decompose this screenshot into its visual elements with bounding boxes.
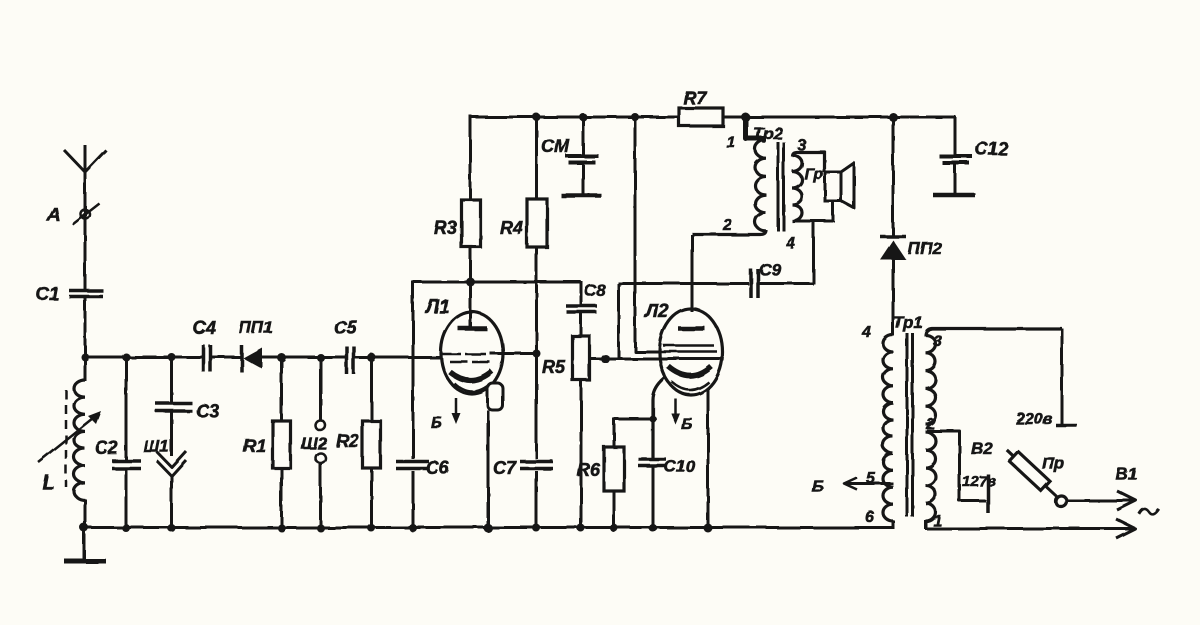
capacitor C12 [940, 155, 973, 159]
node R1 top dot [277, 353, 286, 362]
wire L2 right lead [707, 389, 710, 529]
resistor R1 [273, 421, 291, 468]
node PP2 top dot [889, 113, 898, 122]
wire C4 to diode [211, 356, 242, 359]
wire Sh1 branch upper [170, 357, 173, 404]
tube L2 screen line [661, 350, 717, 353]
svg-text:R2: R2 [336, 431, 359, 451]
node L2 right lead dot [704, 524, 713, 533]
wire L1 cathode to bus [487, 410, 490, 529]
resistor R1 branch [280, 358, 283, 422]
wire C10 to bus [652, 466, 655, 529]
wire Tr1 pin3 [926, 329, 1063, 337]
wire top supply bus right [722, 116, 956, 119]
svg-text:В2: В2 [971, 439, 993, 458]
wire L2 anode vertical [691, 235, 694, 313]
node L1 cathode bottom dot [484, 524, 493, 533]
capacitor C11 branch [582, 117, 585, 154]
tube L1 cathode tab [488, 383, 503, 410]
wire C8 stem upper [580, 281, 583, 305]
svg-text:Б: Б [681, 416, 692, 433]
node Sh1 top dot [168, 353, 176, 361]
speaker Gr [825, 172, 841, 201]
wire top supply bus left [470, 116, 679, 119]
switch contact 127V [986, 474, 990, 513]
wire C3 to jack [170, 411, 173, 456]
wire main bus row [85, 356, 204, 359]
svg-text:В1: В1 [1116, 465, 1138, 484]
tube L2 envelope [660, 309, 723, 395]
antenna A symbol [64, 150, 106, 172]
svg-text:R3: R3 [434, 218, 457, 238]
node R6 tap dot [650, 416, 657, 423]
svg-text:СМ: СМ [541, 136, 570, 156]
svg-text:С8: С8 [584, 281, 606, 300]
node Sh1 bottom dot [168, 524, 176, 532]
node C6 bottom dot [409, 524, 417, 532]
jack Sh1 symbol [157, 451, 186, 467]
wire bottom bus right [925, 527, 1132, 530]
svg-text:R1: R1 [243, 436, 266, 456]
wire Tr2 pin4 [792, 220, 833, 223]
wire C1 to bus [84, 297, 87, 358]
filament arrow B of L2 [674, 398, 677, 418]
wire to V1 [1067, 499, 1133, 502]
svg-text:Тр2: Тр2 [753, 124, 783, 143]
svg-text:R4: R4 [500, 218, 523, 238]
svg-text:R6: R6 [577, 460, 601, 480]
tube L1 anode [458, 326, 487, 331]
node screen-R4 dot [533, 350, 541, 358]
switch contact 220V [1056, 424, 1077, 428]
wire 220V drop [1061, 329, 1064, 425]
resistor R7 [679, 108, 723, 126]
wire diode to C5 [261, 356, 346, 359]
capacitor C11 [566, 154, 599, 158]
node screen feed top dot [631, 113, 639, 121]
svg-text:Ш1: Ш1 [143, 437, 169, 456]
resistor R4 branch [535, 117, 538, 200]
wire C8 to R5 [580, 313, 583, 337]
svg-text:С2: С2 [95, 438, 118, 458]
resistor R5 [573, 336, 590, 380]
tube L1 envelope [441, 312, 503, 394]
wire R6 tap [614, 418, 653, 421]
tube L1 screen dashes [450, 361, 468, 364]
svg-text:ПП2: ПП2 [908, 239, 942, 258]
diode PP1 [240, 345, 244, 372]
ground [83, 527, 86, 560]
svg-text:6: 6 [865, 509, 874, 526]
jack Sh2 contacts [316, 421, 326, 431]
tube L2 anode [678, 326, 705, 331]
node C2 bottom dot [122, 524, 130, 532]
transformer Tr2 secondary [792, 155, 802, 221]
node R1 bottom dot [278, 524, 286, 532]
wire anode row [413, 281, 581, 284]
transformer Tr1 core [906, 333, 909, 517]
diode PP2 [880, 235, 906, 239]
svg-text:С5: С5 [334, 318, 358, 338]
chassis bar of C12 [933, 193, 975, 198]
speaker Gr lead [832, 200, 835, 222]
node ground corner dot [80, 523, 89, 532]
svg-text:L: L [42, 471, 55, 494]
wire L2 cathode lead [653, 378, 665, 458]
filament arrow B of L1 [455, 398, 458, 418]
node A connector circle [81, 210, 90, 219]
capacitor C8 [566, 304, 597, 308]
node R2 top dot [367, 353, 376, 362]
svg-text:Ш2: Ш2 [301, 434, 328, 453]
svg-text:Б: Б [431, 415, 442, 432]
label mains tilde [1139, 509, 1159, 514]
svg-text:Л2: Л2 [643, 301, 669, 322]
wire bottom bus left [84, 526, 893, 529]
svg-text:Пр: Пр [1042, 454, 1065, 473]
wire C12 branch [954, 117, 957, 155]
node R2 bottom dot [368, 524, 376, 532]
arrow bottom bus [1116, 519, 1135, 538]
inductor L (variable) [74, 380, 85, 500]
node R4 top dot [533, 113, 541, 121]
wire C9 to Tr2 pin4 [758, 282, 814, 285]
svg-text:3: 3 [933, 333, 942, 350]
tube L1 foot arc [454, 383, 491, 392]
wire PP2 to Tr1 [892, 258, 895, 336]
node Tr2 pin1 dot [741, 113, 750, 122]
transformer Tr1 secondary [926, 335, 936, 424]
svg-text:Л1: Л1 [424, 297, 450, 318]
svg-text:С10: С10 [664, 457, 696, 476]
svg-text:С6: С6 [426, 458, 450, 478]
wire C2 branch [125, 357, 128, 529]
svg-text:3: 3 [797, 137, 806, 154]
tube L1 cathode arc [450, 371, 492, 380]
capacitor C6 [396, 459, 429, 471]
svg-text:С9: С9 [759, 260, 781, 279]
wire tap5 arrow B [846, 482, 893, 485]
svg-text:ПП1: ПП1 [239, 318, 273, 337]
svg-text:220в: 220в [1015, 411, 1053, 428]
capacitor C3 [156, 402, 193, 413]
wire grid row to tube L2 [591, 357, 723, 360]
wire Sh1 to bus [170, 475, 173, 529]
arrow V1 [1117, 491, 1136, 510]
wire Tr2 pin1 lead [746, 117, 766, 139]
wire C12 lower stem [954, 164, 957, 194]
fuse pivot circle [1056, 496, 1067, 507]
resistor R3 branch [469, 115, 472, 201]
node Sh2 top dot [317, 354, 325, 362]
node bus-left corner dot [81, 353, 89, 361]
wire C9 row [618, 282, 749, 285]
node grid row dot [601, 354, 610, 363]
wire PP2 upper [892, 117, 895, 237]
capacitor C1 [69, 289, 103, 293]
capacitor C2 [112, 460, 141, 470]
svg-text:R5: R5 [542, 357, 566, 377]
capacitor C4 [202, 345, 206, 372]
wire anode-row to C6 line [412, 281, 415, 529]
svg-text:С1: С1 [36, 284, 59, 304]
node C7 bottom dot [533, 524, 541, 532]
svg-text:R7: R7 [683, 88, 707, 108]
svg-text:2: 2 [722, 217, 732, 234]
resistor R2 branch [370, 358, 373, 422]
tube L2 cathode arc [668, 366, 711, 376]
wire L1 screen to R4 [490, 352, 537, 355]
transformer Tr2 primary [755, 140, 766, 231]
fuse Pr [1002, 445, 1061, 501]
capacitor C9 [749, 269, 753, 298]
wire Tr1 pin2 tap [927, 431, 986, 501]
svg-text:4: 4 [861, 324, 871, 341]
svg-text:С4: С4 [193, 318, 216, 338]
svg-text:Б: Б [812, 477, 824, 496]
wire Tr2 pin2 [692, 230, 766, 235]
wire R5 to bottom bus [580, 379, 583, 529]
tube L1 grid dashes [442, 353, 461, 356]
svg-text:Тр1: Тр1 [893, 313, 923, 332]
capacitor C10 [638, 458, 667, 468]
transformer Tr2 core [777, 142, 780, 231]
resistor R3 [462, 200, 481, 247]
svg-text:5: 5 [866, 470, 876, 487]
wire antenna mast [84, 170, 87, 290]
resistor R4 [527, 199, 547, 247]
node R5 bottom dot [577, 524, 585, 532]
wire C9 tap vertical [617, 284, 620, 359]
svg-text:A: A [46, 205, 61, 226]
wire C11 lower stem [582, 163, 585, 194]
svg-text:1: 1 [726, 134, 735, 151]
tube L2 foot arc [672, 382, 709, 390]
node Sh2 bottom dot [317, 524, 325, 532]
capacitor C5 [345, 346, 349, 374]
jack Sh2 branch [319, 357, 322, 420]
tube L2 grid line [663, 344, 714, 347]
capacitor C7 [520, 459, 553, 471]
node R6 bottom dot [610, 524, 618, 532]
wire screen feed vertical [635, 117, 661, 352]
node cathode bottom dot [649, 524, 657, 532]
wire C5 to tube L1 grid [354, 356, 443, 359]
resistor R2 [363, 421, 381, 468]
arrow through L [38, 414, 98, 462]
svg-text:4: 4 [785, 235, 795, 252]
svg-text:Гр: Гр [804, 166, 823, 183]
chassis bar of C11 [561, 193, 601, 198]
node anode row R3 dot [466, 278, 475, 287]
node C11 top dot [579, 113, 587, 121]
resistor R6 [604, 447, 624, 491]
transformer Tr1 primary [883, 335, 893, 521]
core dashed line of L [65, 390, 68, 487]
resistor R6 branch [613, 418, 616, 448]
svg-text:С12: С12 [975, 139, 1008, 159]
svg-text:127в: 127в [962, 473, 996, 490]
svg-text:С7: С7 [493, 458, 517, 478]
node C2 top dot [122, 353, 130, 361]
svg-text:С3: С3 [196, 401, 219, 421]
wire Tr2 pin3 [792, 152, 824, 172]
